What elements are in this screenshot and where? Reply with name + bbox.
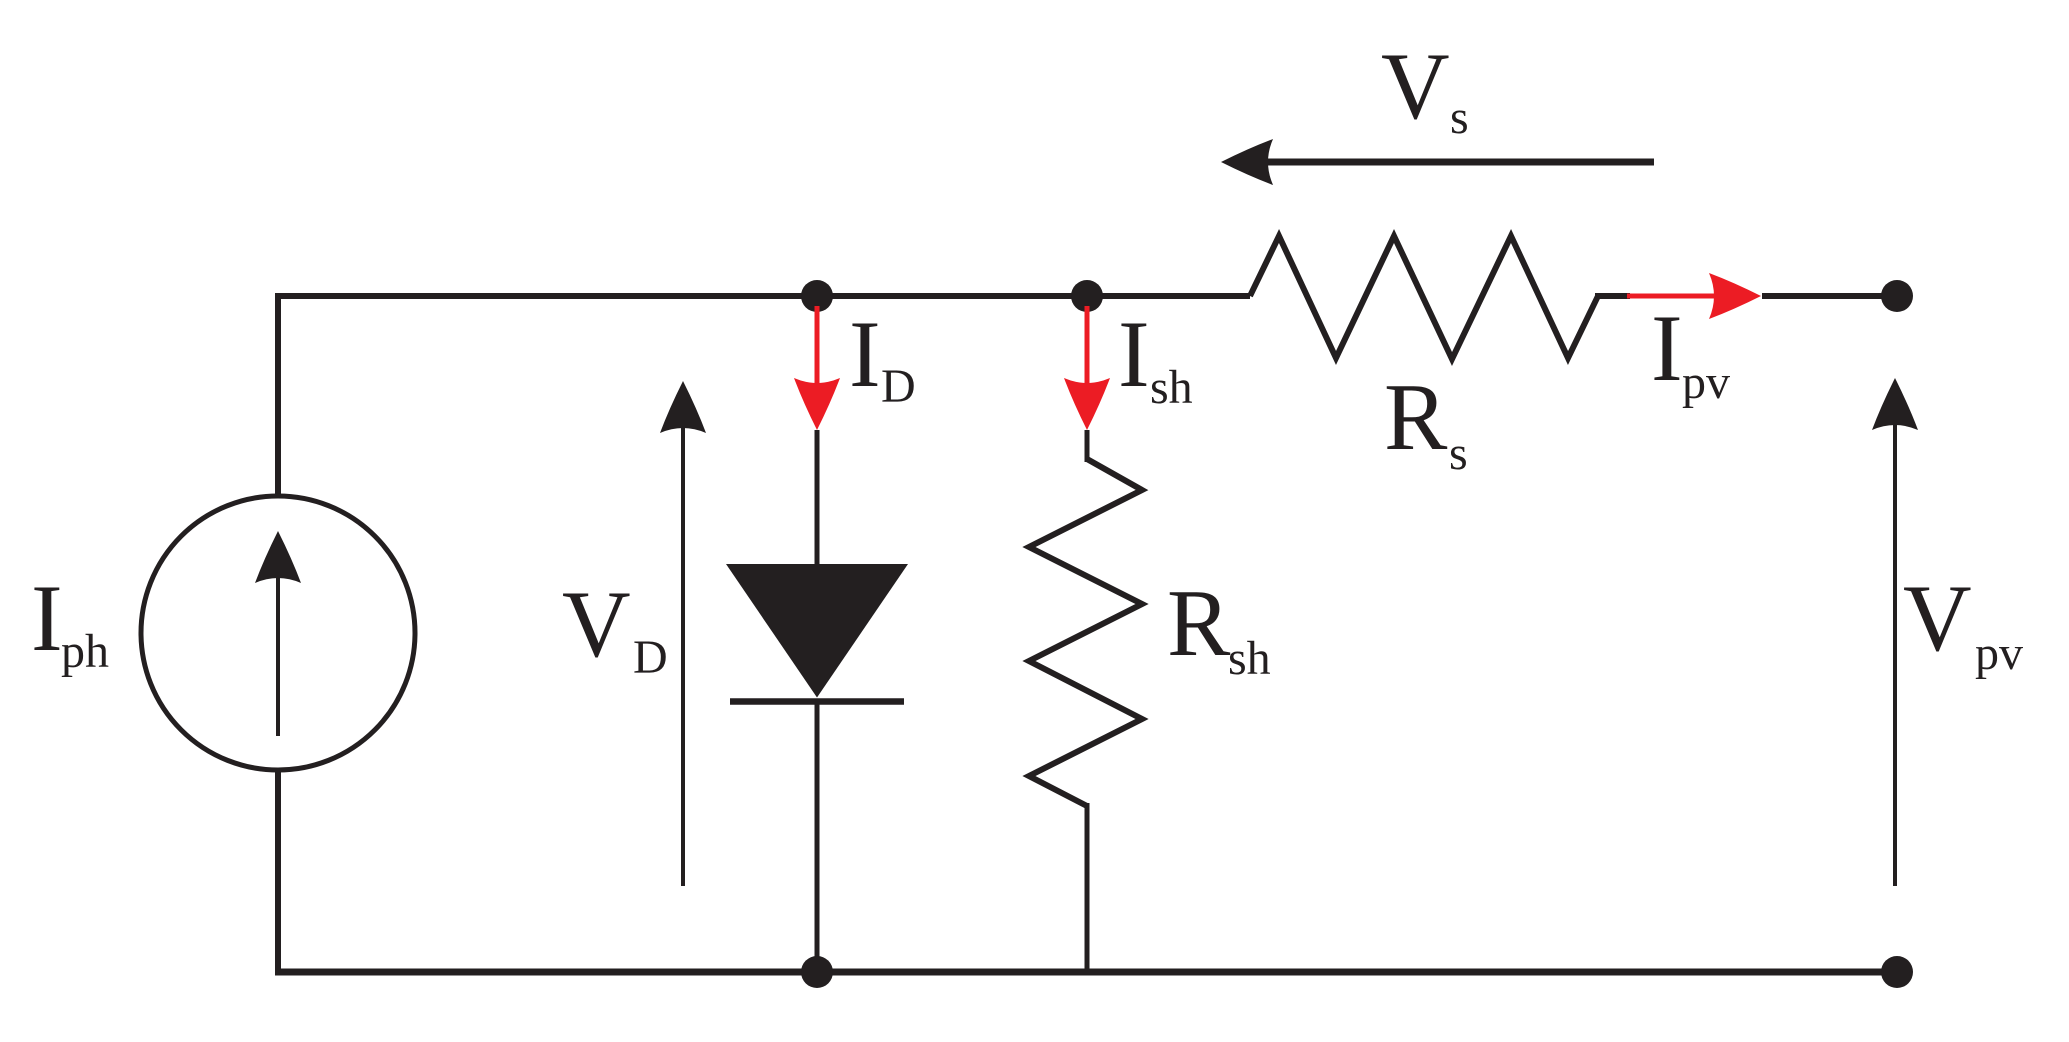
resistor R_s zigzag — [1250, 236, 1598, 359]
svg-text:sh: sh — [1150, 361, 1193, 414]
current source I_ph circle — [141, 496, 415, 770]
voltage V_D arrowhead — [660, 381, 706, 433]
svg-text:s: s — [1450, 91, 1469, 144]
svg-text:V: V — [1381, 33, 1450, 139]
voltage V_D arrow shaft — [681, 420, 685, 886]
wire diode anode — [815, 430, 820, 566]
current source arrow shaft — [276, 570, 280, 736]
node negative output terminal — [1881, 956, 1913, 988]
wire to positive output terminal — [1762, 293, 1897, 299]
wire current source bottom to bottom rail — [275, 770, 281, 972]
svg-text:I: I — [1651, 295, 1683, 401]
svg-text:pv: pv — [1975, 627, 2023, 680]
current I_pv red arrowhead — [1709, 273, 1761, 319]
svg-text:D: D — [633, 631, 668, 684]
wire resistor Rs right lead — [1595, 293, 1630, 299]
svg-text:V: V — [1903, 565, 1972, 671]
voltage V_s arrow line — [1258, 159, 1654, 166]
diode D triangle — [726, 564, 908, 698]
svg-text:sh: sh — [1228, 632, 1271, 685]
current I_pv red arrow shaft — [1627, 294, 1722, 299]
wire top-left from current source to top rail — [278, 296, 1250, 496]
svg-text:R: R — [1167, 570, 1231, 676]
wire shunt top lead — [1085, 430, 1090, 462]
current I_D red arrow shaft — [815, 306, 820, 395]
voltage V_s arrowhead — [1221, 139, 1273, 185]
svg-text:pv: pv — [1682, 356, 1730, 409]
wire shunt bottom lead to bottom rail — [1085, 803, 1090, 972]
wire diode cathode to bottom rail — [815, 701, 820, 972]
voltage V_pv arrowhead — [1872, 378, 1918, 430]
svg-text:R: R — [1384, 364, 1448, 470]
wire bottom rail — [275, 969, 1897, 976]
svg-text:I: I — [849, 301, 881, 407]
current source arrowhead — [255, 531, 301, 583]
resistor R_sh zigzag — [1029, 459, 1142, 806]
node bottom diode junction — [801, 956, 833, 988]
current I_sh red arrowhead — [1064, 378, 1110, 430]
current I_D red arrowhead — [794, 378, 840, 430]
svg-text:s: s — [1449, 427, 1468, 480]
node B top shunt junction — [1071, 280, 1103, 312]
svg-text:I: I — [1118, 301, 1150, 407]
svg-text:V: V — [562, 571, 631, 677]
node A top diode junction — [801, 280, 833, 312]
node positive output terminal — [1881, 280, 1913, 312]
svg-text:D: D — [881, 360, 916, 413]
voltage V_pv arrow shaft — [1893, 417, 1897, 886]
svg-text:ph: ph — [61, 625, 109, 678]
current I_sh red arrow shaft — [1085, 306, 1090, 395]
diode cathode bar — [730, 698, 904, 705]
svg-text:I: I — [31, 565, 63, 671]
